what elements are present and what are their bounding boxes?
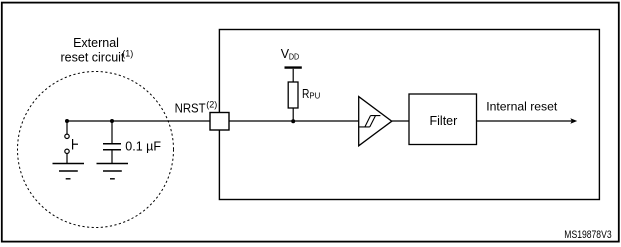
- svg-text:MS19878V3: MS19878V3: [564, 229, 611, 241]
- svg-text:reset circuit: reset circuit: [61, 51, 125, 65]
- svg-text:External: External: [73, 36, 119, 50]
- svg-text:Filter: Filter: [430, 114, 458, 128]
- svg-text:Internal reset: Internal reset: [486, 100, 558, 114]
- svg-text:(2): (2): [206, 99, 217, 109]
- svg-text:(1): (1): [122, 48, 133, 58]
- svg-text:0.1 µF: 0.1 µF: [125, 140, 161, 154]
- svg-text:PU: PU: [309, 91, 320, 101]
- svg-text:DD: DD: [289, 52, 299, 62]
- svg-text:NRST: NRST: [175, 102, 206, 116]
- svg-text:R: R: [302, 87, 309, 101]
